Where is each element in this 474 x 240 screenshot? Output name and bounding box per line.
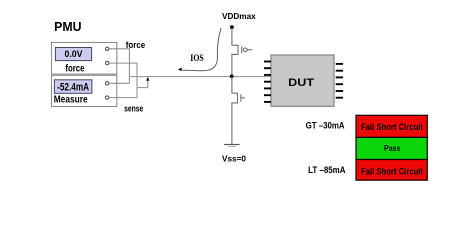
svg-text:Fail Short Circuit: Fail Short Circuit	[361, 122, 423, 132]
svg-text:LT –85mA: LT –85mA	[308, 165, 345, 176]
terminal T1 (force hi)	[106, 47, 109, 50]
VDD node dot	[230, 25, 234, 29]
pin R2	[336, 70, 343, 72]
svg-text:sense: sense	[124, 104, 143, 114]
terminal T4 (sense lo)	[106, 96, 109, 99]
pin L4	[264, 81, 271, 83]
Q2 gate lead	[241, 97, 245, 99]
pin L2	[264, 67, 271, 69]
DUT left pins	[264, 62, 271, 102]
wire T2 to sense vertical	[109, 63, 137, 88]
svg-text:-52.4mA: -52.4mA	[57, 82, 89, 94]
Q1 channel bar	[237, 45, 239, 55]
wire T1 to force vertical	[109, 49, 129, 84]
svg-text:Fail Short Circuit: Fail Short Circuit	[361, 167, 423, 177]
svg-text:Vss=0: Vss=0	[222, 154, 246, 164]
wire sense horizontal to arrow	[137, 80, 148, 88]
IOS arrowhead	[178, 68, 182, 72]
result box fail 1	[356, 115, 427, 137]
Q1 gate bubble	[243, 48, 247, 52]
sense arrowhead	[146, 77, 149, 81]
pin L6	[264, 94, 271, 96]
svg-text:Measure: Measure	[54, 95, 88, 106]
transistor Q2 NMOS	[232, 76, 245, 144]
transistor Q1 PMOS	[232, 27, 252, 76]
pin L7	[264, 101, 271, 103]
wire T4 to sense vertical	[109, 88, 137, 98]
Q1 source wire to node	[232, 54, 238, 76]
Q2 gate bar	[240, 94, 242, 101]
current display -52.4mA	[54, 80, 92, 94]
Q2 source wire down	[232, 103, 238, 145]
pin L3	[264, 74, 271, 76]
wire T3 horizontal	[109, 82, 129, 84]
pin L1	[264, 61, 271, 63]
svg-text:0.0V: 0.0V	[65, 49, 84, 59]
svg-text:PMU: PMU	[54, 20, 81, 34]
terminal T3 (measure)	[106, 82, 109, 85]
voltage display 0.0V	[55, 48, 91, 61]
pin R3	[336, 76, 343, 78]
svg-text:DUT: DUT	[288, 77, 314, 89]
Q2 drain wire from node	[232, 76, 238, 93]
Q2 channel bar	[237, 93, 239, 104]
svg-text:GT –30mA: GT –30mA	[306, 121, 345, 132]
pin R6	[336, 97, 343, 99]
svg-text:VDDmax: VDDmax	[222, 11, 256, 21]
DUT box	[271, 55, 334, 106]
svg-text:Pass: Pass	[384, 143, 401, 153]
Q1 gate bar	[241, 46, 243, 53]
svg-text:IOS: IOS	[190, 53, 204, 63]
Q1 drain wire from VDD	[232, 27, 238, 45]
result box pass	[356, 137, 427, 159]
DUT right pins	[336, 64, 343, 98]
ground Vss	[224, 144, 239, 146]
terminal T2 (sense hi)	[106, 61, 109, 64]
pin L5	[264, 87, 271, 89]
PMU force box	[52, 43, 117, 75]
pin R4	[336, 83, 343, 85]
main force wire to DUT	[129, 76, 271, 78]
pin R1	[336, 63, 343, 65]
svg-text:force: force	[65, 64, 84, 75]
node junction dot	[230, 75, 234, 79]
IOS current curve	[183, 28, 222, 71]
result box fail 2	[356, 160, 427, 181]
PMU measure box	[52, 75, 117, 106]
Q1 gate lead	[247, 49, 252, 51]
pin R5	[336, 90, 343, 92]
